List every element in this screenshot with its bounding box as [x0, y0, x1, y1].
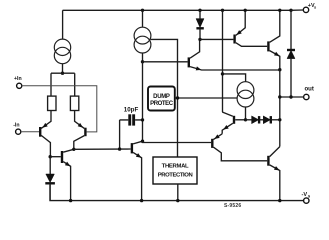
- svg-text:out: out: [305, 87, 314, 93]
- wire top +Vs rail: [63, 9, 291, 11]
- node Q6 base / I3 / diodes: [244, 118, 247, 121]
- wire bottom -Vs rail: [50, 185, 304, 201]
- wire Q4 base line: [74, 148, 131, 150]
- node Q3 emitter on rail: [69, 199, 72, 202]
- current source I2: [134, 9, 151, 62]
- node I2 / Q5 base / Q4 collector line: [141, 60, 144, 63]
- resistor R2: [70, 96, 78, 110]
- wire thermal to rail: [177, 184, 179, 201]
- wire +In to Q2 base: [22, 86, 97, 132]
- node Q10 emitter on rail: [278, 199, 281, 202]
- box dump protection: [148, 87, 175, 111]
- node C1 left on Q4 base: [118, 147, 121, 150]
- node Q4 collector / Q7 base: [141, 140, 144, 143]
- diode D2: [45, 157, 55, 201]
- diode D1: [196, 9, 204, 40]
- node Q9/Q5 emitters: [278, 68, 281, 71]
- transistor Q1 (PNP input left): [40, 111, 51, 156]
- svg-text:DUMP: DUMP: [153, 94, 170, 100]
- resistor R1: [48, 96, 56, 110]
- transistor Q2 (PNP input right): [74, 111, 86, 149]
- transistor Q10 (NPN output low): [268, 147, 279, 201]
- transistor Q6 (NPN bias): [222, 112, 245, 134]
- node emitter-split: [61, 72, 64, 75]
- wire split bar: [51, 73, 75, 96]
- wire Q4 collector column: [142, 62, 144, 141]
- diode D3: [246, 116, 260, 124]
- node out column: [278, 95, 281, 98]
- wire Q6 collector column: [221, 9, 224, 112]
- terminal +In: [14, 76, 22, 89]
- terminal out: [280, 87, 314, 100]
- current source I1: [54, 10, 70, 73]
- box thermal protection: [153, 157, 197, 184]
- current source I3: [237, 82, 254, 120]
- wire emitter node down to out: [279, 70, 281, 147]
- node D1 / Q5 collector / Q8 base: [198, 38, 201, 41]
- svg-text:PROTECTION: PROTECTION: [158, 173, 193, 179]
- transistor Q9 (NPN output top): [268, 10, 279, 69]
- transistor Q5 (predriver NPN): [189, 39, 280, 70]
- wire Q5 base: [143, 61, 188, 63]
- transistor Q7 (PNP driver): [212, 134, 267, 161]
- node diode row / out column: [278, 118, 281, 121]
- transistor Q4 (VAS): [132, 141, 143, 200]
- svg-text:-V: -V: [302, 192, 308, 198]
- diode D4: [260, 116, 280, 124]
- wire dump to I3: [175, 97, 237, 99]
- node Q4 emitter on rail: [140, 199, 143, 202]
- diode D5 (output clamp): [287, 9, 295, 97]
- node C1 right on Q4 collector column: [141, 118, 144, 121]
- wire Q7 base: [143, 141, 212, 142]
- terminal -Vs: [302, 192, 311, 203]
- terminal +Vs: [291, 3, 317, 12]
- wire I3 top to Q6 collector column: [221, 72, 224, 75]
- capacitor C1 10pF: [120, 107, 143, 150]
- wire -In to Q1 base: [21, 131, 39, 133]
- wire Q8 base: [200, 38, 233, 40]
- svg-text:PROTEC: PROTEC: [150, 101, 174, 107]
- transistor Q8 (PNP level shift): [235, 10, 268, 46]
- svg-text:THERMAL: THERMAL: [162, 164, 189, 170]
- terminal -In: [13, 122, 21, 134]
- node dump wire x thermal column: [176, 96, 179, 99]
- svg-text:10pF: 10pF: [124, 107, 139, 114]
- node D5 anode: [289, 95, 292, 98]
- svg-text:-In: -In: [13, 122, 19, 128]
- node Q1 collector / Q3 base / D2: [49, 155, 52, 158]
- svg-text:+In: +In: [14, 76, 22, 82]
- node Q2/Q3 collectors to Q4 base: [72, 148, 75, 151]
- transistor Q3 (NPN mirror): [50, 149, 74, 200]
- svg-text:S-9526: S-9526: [224, 203, 241, 209]
- wire I2 side to thermal column: [151, 39, 178, 157]
- node thermal on rail: [176, 199, 179, 202]
